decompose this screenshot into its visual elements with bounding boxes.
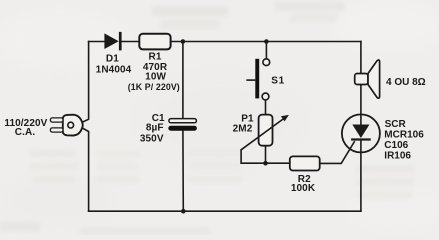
wire node to R2 bbox=[266, 162, 290, 164]
svg-text:1N4004: 1N4004 bbox=[96, 65, 132, 76]
speaker LS1 bbox=[355, 60, 380, 98]
svg-text:4 OU 8Ω: 4 OU 8Ω bbox=[386, 77, 426, 88]
resistor R2 bbox=[290, 156, 320, 170]
svg-text:S1: S1 bbox=[271, 75, 284, 86]
junction node at R1/C1 top bbox=[181, 39, 186, 44]
junction node at S1 top bbox=[264, 39, 269, 44]
potentiometer P1 body bbox=[259, 115, 273, 146]
wire S1 to P1 bbox=[265, 100, 267, 115]
wire bottom rail bbox=[89, 210, 361, 212]
label R1 470R 10W (1K P/ 220V) bbox=[128, 51, 180, 92]
diode D1 bbox=[104, 32, 121, 51]
wire top rail segment from R1 to right bus bbox=[171, 41, 361, 43]
svg-text:SCR: SCR bbox=[385, 119, 407, 130]
svg-text:100K: 100K bbox=[291, 183, 316, 194]
potentiometer P1 wiper arrow bbox=[241, 115, 289, 150]
label SCR MCR106 C106 IR106 bbox=[384, 119, 424, 161]
resistor R1 bbox=[139, 34, 170, 50]
wire C1 branch lower bbox=[182, 131, 184, 212]
wire C1 branch upper bbox=[182, 42, 184, 119]
switch S1 pushbutton bbox=[246, 59, 269, 100]
wire right bus mid (speaker to SCR anode) bbox=[360, 84, 362, 114]
svg-text:IR106: IR106 bbox=[384, 150, 411, 161]
junction node P1/R2 bbox=[263, 161, 268, 166]
wire top rail segment from left bus to D1 anode bbox=[89, 41, 105, 43]
capacitor C1 plates bbox=[168, 119, 197, 131]
svg-text:8µF: 8µF bbox=[146, 123, 164, 134]
SCR anode lead bbox=[360, 115, 362, 125]
wire right bus bottom (SCR cathode to bottom rail) bbox=[360, 152, 362, 211]
svg-text:C.A.: C.A. bbox=[15, 127, 36, 138]
wire right bus top (top rail to speaker) bbox=[360, 42, 362, 74]
svg-text:(1K P/ 220V): (1K P/ 220V) bbox=[128, 82, 180, 92]
label R2 100K bbox=[291, 174, 316, 194]
SCR thyristor triangle bbox=[352, 125, 369, 139]
label P1 2M2 bbox=[233, 114, 254, 135]
wire segment D1 cathode to R1 bbox=[122, 41, 139, 43]
label 110/220V C.A. bbox=[4, 118, 47, 138]
svg-text:D1: D1 bbox=[106, 54, 119, 65]
svg-text:R1: R1 bbox=[149, 51, 162, 62]
svg-text:2M2: 2M2 bbox=[233, 124, 253, 135]
junction node C1 bottom bbox=[181, 209, 186, 214]
SCR body circle bbox=[342, 114, 380, 152]
AC plug symbol bbox=[50, 115, 82, 136]
label D1 1N4004 bbox=[96, 54, 132, 76]
svg-text:350V: 350V bbox=[140, 133, 164, 144]
wire S1 branch from top rail bbox=[265, 42, 267, 59]
wire left bus upper (plug to top rail) bbox=[82, 42, 89, 123]
label C1 8uF 350V bbox=[140, 113, 165, 144]
wire left bus lower (plug to bottom rail) bbox=[82, 128, 89, 211]
SCR cathode bar bbox=[351, 138, 371, 140]
svg-text:MCR106: MCR106 bbox=[384, 130, 424, 141]
wire R2 to SCR gate bbox=[320, 142, 355, 164]
wire P1 lower terminal bbox=[265, 146, 267, 164]
wire P1 wiper return bbox=[241, 150, 265, 163]
SCR cathode lead bbox=[360, 140, 362, 153]
